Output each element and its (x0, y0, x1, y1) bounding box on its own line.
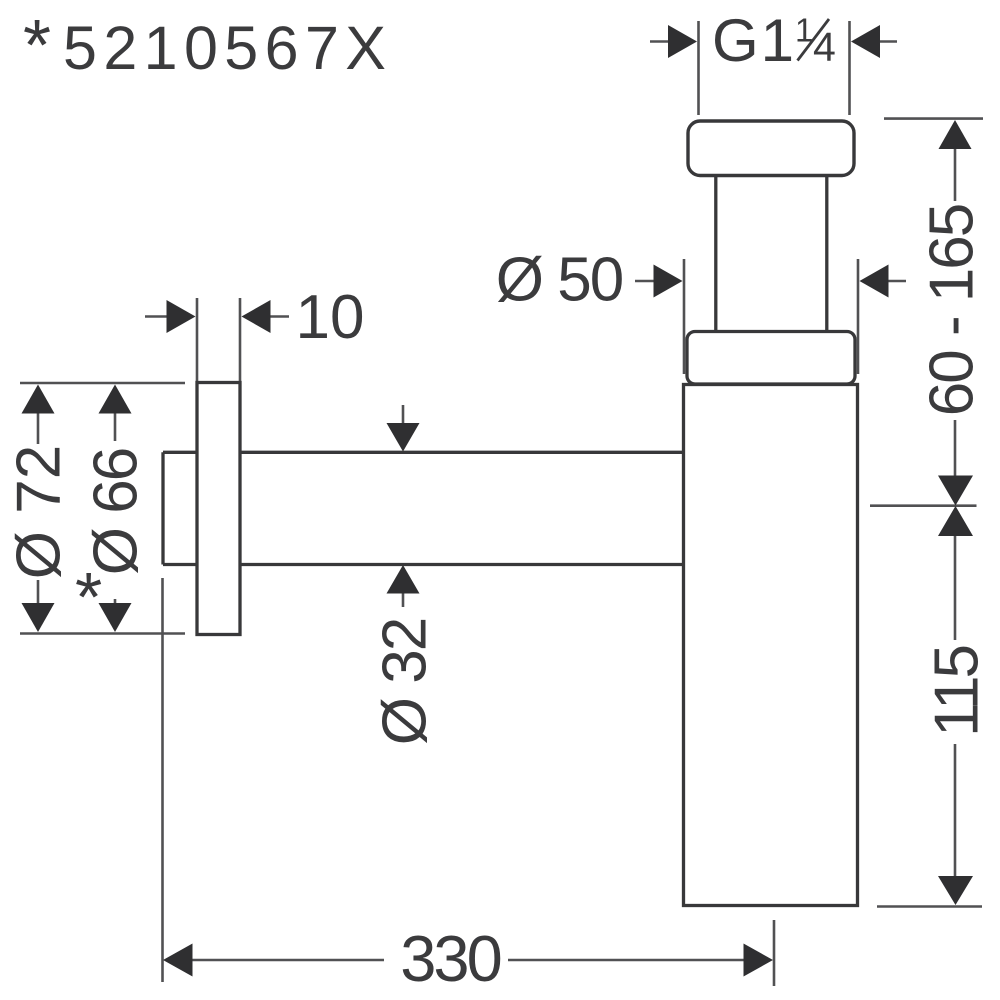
fraction slash (798, 19, 830, 61)
dim line 330 (191, 959, 745, 962)
svg-text:5210567X: 5210567X (63, 14, 392, 82)
dim line D32 top stub (402, 405, 405, 424)
inlet pipe vertical left edge (714, 176, 717, 332)
dim line 115 (954, 536, 957, 877)
top union nut (688, 121, 854, 176)
extension line 60-165 top (884, 117, 983, 120)
arrow up of D72 (22, 385, 55, 414)
svg-text:10: 10 (296, 283, 365, 352)
extension line for 330 dim, left (below pipe end) (161, 578, 164, 982)
svg-text:115: 115 (923, 647, 992, 737)
wall flange extension line right (10 dim) (239, 298, 242, 381)
arrow left of D50 (635, 265, 683, 298)
arrow down of D72 (22, 603, 55, 632)
arrow up of 115 (938, 506, 973, 536)
arrow down of D66 (99, 603, 132, 632)
inlet pipe vertical right edge (825, 176, 828, 332)
svg-text:*: * (75, 558, 102, 636)
arrow left of G 1 1/4 (650, 25, 697, 58)
arrow up of D66 (99, 385, 132, 414)
arrow right of D50 (860, 265, 907, 298)
arrow down of 60-165 (938, 476, 973, 506)
arrow down of 115 (938, 876, 973, 905)
extension line top (flange diameter dims) (20, 382, 185, 385)
arrow left of 330 dim (163, 944, 193, 977)
extension line bottom (flange diameter dims) (20, 632, 185, 635)
dim line D32 bottom stub (402, 594, 405, 608)
wall flange plate (197, 383, 240, 635)
arrow left of 10 dim (145, 300, 196, 333)
reference line at pipe centerline (60-165 / 115 boundary) (870, 504, 977, 507)
arrow up of 60-165 (939, 120, 972, 149)
outlet pipe top edge (163, 451, 683, 454)
arrow down onto pipe top (D32) (387, 423, 420, 452)
svg-text:330: 330 (400, 922, 500, 995)
outlet pipe wall end (161, 452, 164, 564)
dim line of D72 (37, 413, 40, 604)
arrow up onto pipe bottom (D32) (387, 565, 420, 594)
lower collar nut (687, 332, 855, 385)
arrow right of 10 dim (242, 300, 290, 333)
extension line for G 1 1/4, right (848, 21, 851, 115)
extension line D50 right (857, 259, 860, 374)
outlet pipe bottom edge (163, 563, 683, 566)
svg-text:Ø 66: Ø 66 (82, 449, 151, 575)
extension line D50 left (683, 259, 686, 374)
svg-text:Ø 72: Ø 72 (5, 445, 74, 579)
svg-text:Ø 50: Ø 50 (496, 246, 623, 315)
dim line 60-165 (954, 148, 957, 477)
extension line 115 bottom (877, 905, 982, 908)
arrow right of 330 dim (744, 944, 774, 977)
svg-text:60 - 165: 60 - 165 (918, 205, 987, 417)
svg-text:Ø 32: Ø 32 (371, 619, 440, 745)
trap body (684, 385, 858, 906)
svg-text:4: 4 (813, 24, 836, 70)
wall flange extension line left (10 dim) (196, 298, 199, 381)
svg-text:G1: G1 (712, 7, 796, 74)
svg-text:*: * (23, 6, 51, 86)
dim line of D66 (114, 413, 117, 604)
arrow right of G 1 1/4 (851, 25, 897, 58)
extension line for 330 dim, right (below trap centerline) (773, 920, 776, 986)
extension line for G 1 1/4, left (697, 21, 700, 115)
